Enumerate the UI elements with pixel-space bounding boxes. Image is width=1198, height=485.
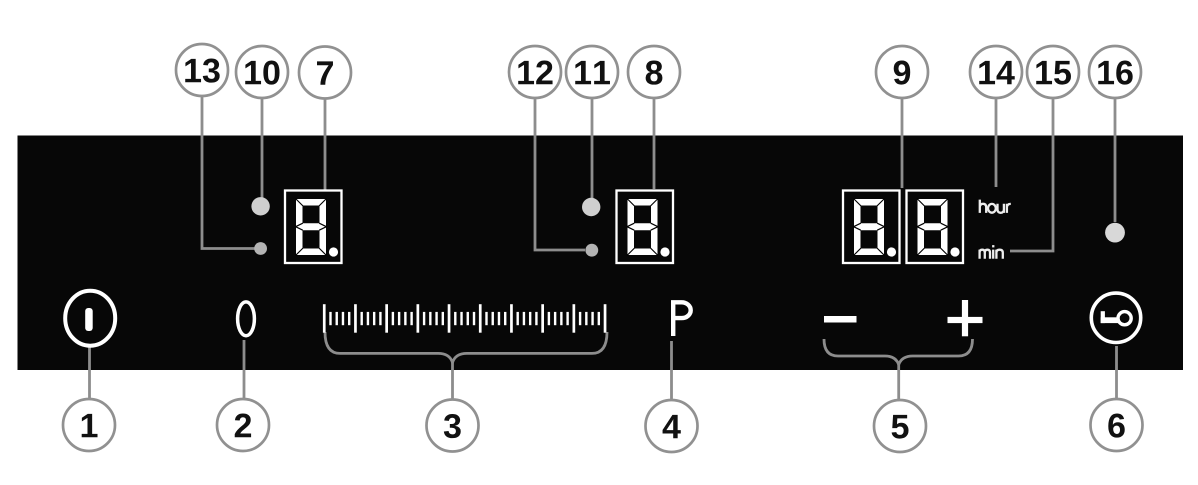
leader line 1 <box>88 347 91 400</box>
key lock icon <box>1091 293 1140 342</box>
control panel background <box>18 136 1184 371</box>
minus key <box>824 316 857 323</box>
P booster symbol <box>673 302 691 336</box>
leader line 13 <box>202 95 255 249</box>
leader line 15 <box>1010 95 1053 251</box>
slider minor ticks <box>329 312 600 325</box>
leader line 2 <box>243 340 246 400</box>
LED dot 10 <box>251 197 269 215</box>
callout 6 <box>1091 399 1143 451</box>
callout 16 <box>1089 46 1141 98</box>
seven-segment digit hour <box>854 199 897 257</box>
callout 11 <box>566 46 618 98</box>
callout 14 <box>970 46 1022 98</box>
leader line 7 <box>324 95 327 190</box>
display box 9 min <box>907 191 964 264</box>
callout 13 <box>176 44 228 96</box>
leader line 14 <box>995 95 998 187</box>
callout 15 <box>1027 46 1079 98</box>
callout 5 <box>874 400 926 452</box>
power slider scale <box>323 304 607 333</box>
leader line 4 <box>670 341 673 401</box>
leader line 10 <box>261 95 264 198</box>
plus key <box>948 300 983 336</box>
leader line 8 <box>653 95 656 189</box>
callout 10 <box>236 46 288 98</box>
callout 4 <box>646 400 698 452</box>
leader line 9 <box>901 95 904 188</box>
seven-segment digit min <box>917 199 960 257</box>
callout 8 <box>628 46 680 98</box>
min label <box>980 245 1003 259</box>
display box 9 hour <box>843 191 900 264</box>
LED dot 16 <box>1105 223 1125 243</box>
callout 9 <box>876 46 928 98</box>
callout 2 <box>217 399 269 451</box>
brace 5 <box>824 339 973 401</box>
LED dot 13 <box>254 242 267 255</box>
LED dot 12 <box>585 244 598 257</box>
power button icon <box>65 291 115 346</box>
leader line 12 <box>535 95 585 250</box>
hour label <box>980 200 1011 213</box>
leader line 16 <box>1114 95 1117 222</box>
callout 1 <box>63 399 115 451</box>
callout 7 <box>299 47 351 99</box>
display box 8 <box>617 191 674 264</box>
zero level indicator <box>238 302 255 336</box>
seven-segment digit 7 <box>296 199 339 257</box>
seven-segment digit 8 <box>627 199 670 257</box>
leader line 6 <box>1115 346 1118 400</box>
display box 7 <box>285 191 342 264</box>
leader line 11 <box>591 95 594 198</box>
callout 12 <box>509 46 561 98</box>
callout 3 <box>427 400 479 452</box>
LED dot 11 <box>582 198 600 216</box>
brace 3 <box>325 332 607 400</box>
